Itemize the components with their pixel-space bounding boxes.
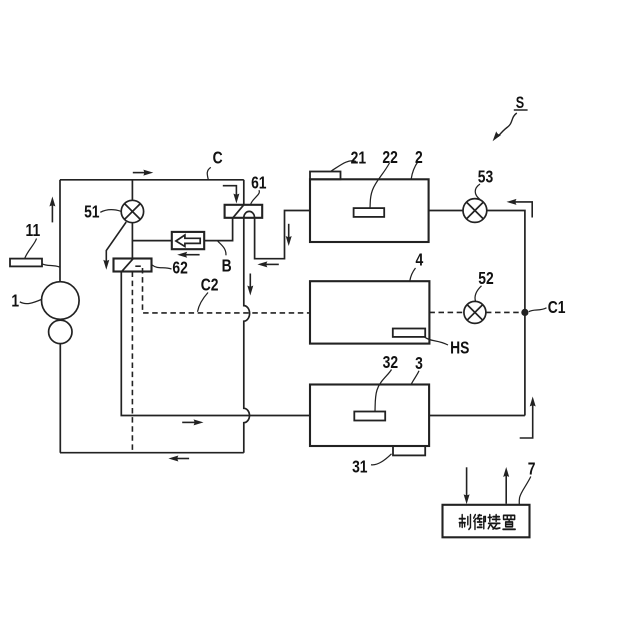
dashed capillary from 62 down to bottom line [131, 272, 133, 453]
leader B [218, 241, 226, 255]
wire: box3 right line to riser [429, 415, 525, 417]
wire: bottom return line [60, 452, 244, 454]
leader 31 [371, 454, 392, 465]
svg-text:22: 22 [382, 149, 398, 168]
wire: left vertical from top line down to compressor [59, 180, 61, 282]
wire: valve51 stem from top line [131, 180, 133, 201]
leader lines [20, 110, 547, 505]
svg-text:C2: C2 [201, 276, 219, 295]
svg-text:2: 2 [415, 148, 423, 167]
kanji text 制御装置 inside control box [459, 515, 515, 530]
svg-text:C1: C1 [548, 298, 566, 317]
dash inside 62 [135, 265, 142, 267]
arrow: right under line to box 3 [182, 421, 196, 423]
four-way valve 61 body [225, 205, 263, 218]
svg-text:21: 21 [351, 149, 367, 168]
leader 7 [519, 477, 531, 505]
leader C2 [198, 293, 209, 312]
receiver 62 body [114, 259, 152, 272]
leader 62 [152, 265, 172, 269]
svg-text:11: 11 [26, 221, 41, 240]
solenoid valve 53 (circle with X) [463, 199, 487, 223]
solenoid valve 51 (circle with X) [121, 200, 143, 222]
dashed line box4 to valve 52 [429, 311, 464, 313]
heat exchanger 2 body [310, 179, 429, 242]
leader 2 [411, 162, 418, 180]
arrow: bent down into valve 61 [223, 186, 237, 197]
arrow: bent left into valve 53 [514, 202, 533, 218]
sensor 11 body [10, 259, 42, 267]
fan 21 tab on box 2 [310, 172, 341, 180]
leader 4 [410, 268, 416, 281]
leader 51 [100, 210, 121, 213]
flow arrows [49, 113, 535, 504]
wire: from 62 down then right to box 3 [121, 272, 310, 416]
wire: long vertical from valve 61 with two hops [244, 218, 250, 453]
valve 61 inlet stem from top line [243, 180, 245, 205]
valve 61 internal diagonal [233, 205, 244, 218]
arrow: squiggle from S label [498, 113, 517, 137]
leader 32 [375, 370, 392, 412]
control device box 7 [443, 505, 530, 538]
fan 31 tab under box 3 [393, 446, 425, 455]
underline of S [514, 109, 528, 111]
arrow: down into control device [466, 467, 468, 497]
leader 11 to wire [42, 264, 59, 267]
check valve body [172, 232, 204, 249]
compressor 1 (large circle) [42, 282, 80, 320]
arrow: down beside 61 right loop [288, 224, 290, 239]
svg-text:S: S [516, 94, 524, 112]
wire: B line from check valve to valve51 stem [132, 240, 172, 242]
wire: B line from component 61 to check valve [204, 218, 233, 241]
svg-text:B: B [222, 257, 232, 276]
svg-text:4: 4 [416, 251, 424, 270]
arrow: up beside left vertical [51, 204, 53, 223]
arrow: left under bottom line [175, 458, 189, 460]
leader 53 [475, 184, 480, 200]
leader C1 [529, 308, 547, 312]
leader 21 [331, 161, 356, 171]
svg-text:51: 51 [84, 203, 100, 222]
sensor 22 inside box 2 [354, 208, 385, 217]
sensor HS inside box 4 [393, 329, 425, 337]
leader 22 [370, 163, 390, 208]
arrow: bent up beside riser at box 3 [520, 404, 533, 439]
arrow: diagonal out of valve 51 [106, 222, 126, 263]
expansion valve 52 (circle with X) [464, 301, 486, 323]
svg-text:61: 61 [251, 174, 267, 193]
svg-text:3: 3 [415, 354, 423, 373]
leader HS [425, 337, 449, 345]
wire: top discharge line C [60, 179, 244, 181]
wire: box2 to valve 53 [429, 210, 463, 212]
svg-text:HS: HS [450, 339, 470, 358]
leader 1 [20, 300, 42, 304]
arrow: down beside long vertical below 61 [249, 274, 251, 289]
leader 3 [411, 371, 419, 384]
arrow: up out of control device [505, 474, 507, 504]
check valve arrow symbol (hollow, pointing left) [176, 235, 200, 247]
dashed C2 line from 62 down and right to box 4 [143, 268, 310, 313]
wire: valve51 down through junction to component 62 [131, 223, 133, 259]
svg-text:31: 31 [352, 458, 368, 477]
wire: compressor suction down to bottom line [59, 344, 61, 453]
svg-text:C: C [213, 149, 223, 168]
svg-text:52: 52 [478, 270, 494, 289]
wire: valve53 to right riser C1 [487, 211, 525, 416]
compressor 1 (small circle) [49, 320, 72, 343]
svg-text:1: 1 [11, 292, 19, 311]
svg-text:53: 53 [478, 168, 494, 187]
leader C [207, 167, 211, 179]
svg-text:7: 7 [528, 460, 536, 479]
dashed line valve52 to node C1 [486, 311, 525, 313]
receiver 62 internal diagonal [121, 258, 134, 272]
svg-text:62: 62 [172, 259, 188, 278]
leader 11 [25, 239, 37, 259]
sensor 32 inside box 3 [354, 412, 385, 421]
arrow: left under 61 loop bottom [264, 263, 279, 265]
heat exchanger 3 body [310, 385, 429, 447]
arrow: left under check valve [184, 254, 200, 256]
leader 61 [251, 190, 260, 204]
node C1 (junction dot) [521, 309, 528, 316]
svg-text:32: 32 [383, 354, 399, 373]
heat exchanger 4 body [310, 281, 429, 343]
arrow: right above top line [133, 172, 146, 174]
leader 52 [475, 286, 481, 301]
wire: valve61 right outlet loop to box 2 [255, 211, 310, 259]
valve 61 internal U-passage arc [244, 211, 255, 217]
